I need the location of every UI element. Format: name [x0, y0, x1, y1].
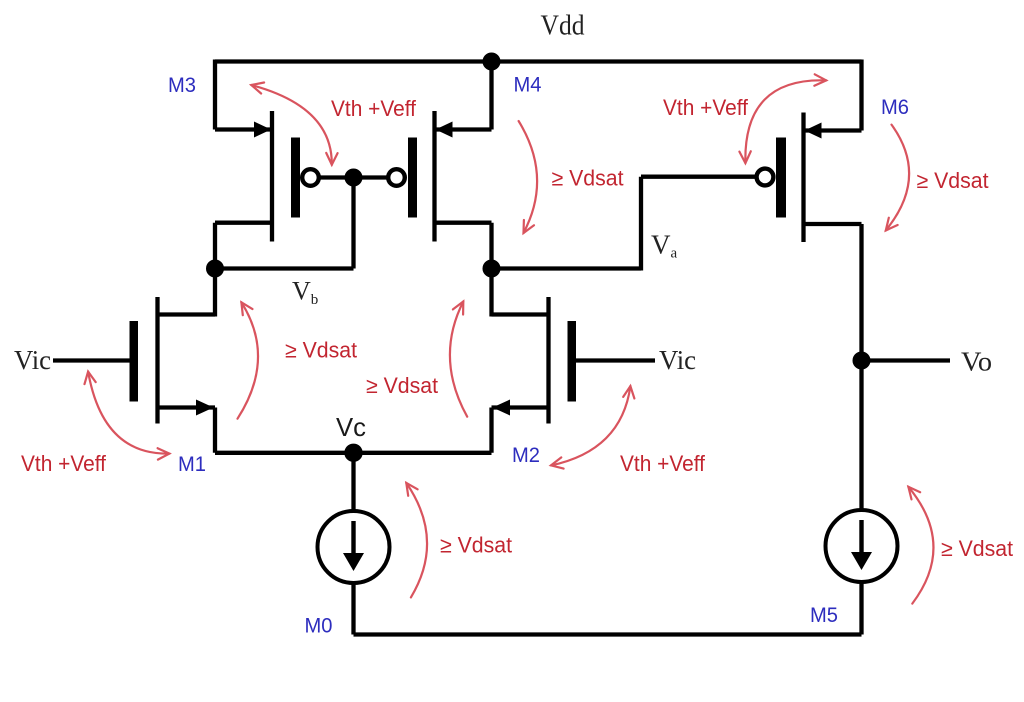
svg-text:M1: M1 — [178, 453, 206, 476]
svg-text:M2: M2 — [512, 444, 540, 467]
svg-text:M6: M6 — [881, 96, 909, 119]
svg-text:Vth +Veff: Vth +Veff — [620, 451, 706, 476]
svg-text:Vth +Veff: Vth +Veff — [331, 96, 417, 121]
svg-text:Vth +Veff: Vth +Veff — [663, 95, 749, 120]
svg-text:≥ Vdsat: ≥ Vdsat — [440, 533, 512, 558]
svg-text:Vic: Vic — [14, 345, 51, 375]
svg-text:M0: M0 — [305, 615, 333, 638]
svg-text:≥ Vdsat: ≥ Vdsat — [552, 166, 624, 191]
svg-text:≥ Vdsat: ≥ Vdsat — [917, 168, 989, 193]
svg-text:Vo: Vo — [961, 347, 992, 377]
svg-text:≥ Vdsat: ≥ Vdsat — [285, 338, 357, 363]
svg-text:≥ Vdsat: ≥ Vdsat — [941, 536, 1013, 561]
svg-text:Vth +Veff: Vth +Veff — [21, 451, 107, 476]
svg-text:Vdd: Vdd — [541, 11, 585, 42]
svg-text:M3: M3 — [168, 74, 196, 97]
svg-text:Vc: Vc — [336, 412, 366, 442]
svg-text:Vic: Vic — [659, 345, 696, 375]
svg-text:M4: M4 — [514, 74, 542, 97]
svg-text:≥ Vdsat: ≥ Vdsat — [366, 373, 438, 398]
svg-text:M5: M5 — [810, 604, 838, 627]
